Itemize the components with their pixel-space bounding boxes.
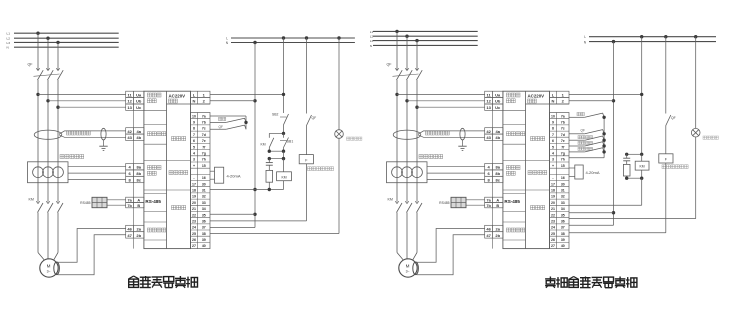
labels L N (left) [226, 36, 229, 45]
circuit breaker QF (right) [393, 66, 423, 80]
bus tap junctions and drops (left) [36, 32, 59, 67]
svg-text:RS-485: RS-485 [504, 199, 520, 204]
4-20mA load resistor (right) [569, 165, 583, 179]
svg-text:31: 31 [561, 189, 565, 193]
label phase current input (left) [147, 166, 161, 176]
terminal block RS-485 A/B (left) [126, 197, 144, 208]
shunt trip relay F (left) [299, 155, 313, 164]
motor thermistor sensor (right) [413, 262, 419, 275]
svg-text:27: 27 [551, 244, 555, 248]
svg-text:7e: 7e [202, 139, 206, 143]
svg-text:8: 8 [552, 127, 554, 131]
svg-text:26: 26 [551, 238, 555, 242]
label thermistor input (left) [147, 228, 165, 232]
wire switch common (left) [210, 116, 246, 129]
QF auxiliary contact (right) [666, 115, 671, 154]
svg-text:30: 30 [202, 182, 206, 186]
svg-text:4a: 4a [495, 129, 500, 134]
svg-text:25: 25 [551, 232, 555, 236]
svg-text:7a: 7a [561, 114, 565, 118]
svg-text:40: 40 [561, 244, 565, 248]
svg-text:5: 5 [552, 145, 554, 149]
label branch 4 (right) [578, 141, 593, 144]
svg-text:34: 34 [561, 207, 565, 211]
wire L tap to indicator lamp (right) [694, 35, 697, 128]
wire N drop (left) [210, 41, 257, 228]
label QF (right) [581, 128, 585, 132]
terminal block L/N mains (left) [191, 91, 211, 104]
svg-text:L3: L3 [7, 41, 11, 45]
svg-text:7e: 7e [561, 139, 565, 143]
svg-text:B: B [496, 204, 499, 208]
svg-text:42: 42 [486, 129, 491, 134]
svg-text:8: 8 [193, 127, 195, 131]
label QF aux (right) [671, 116, 676, 120]
svg-text:19: 19 [192, 195, 196, 199]
label leakage transformer (left) [67, 131, 91, 135]
svg-text:7b: 7b [486, 204, 491, 208]
wires RS485 box to terminals A/B (left) [107, 200, 126, 205]
svg-text:4: 4 [193, 151, 195, 155]
svg-text:AC220V: AC220V [528, 93, 545, 98]
label switch-inputs section (right) [531, 137, 545, 141]
svg-text:24: 24 [551, 226, 555, 230]
svg-text:6: 6 [193, 139, 195, 143]
bus labels L1 L2 L3 N (right) [370, 30, 374, 48]
svg-text:22: 22 [192, 213, 196, 217]
svg-text:QF: QF [219, 125, 223, 129]
svg-text:QF: QF [28, 63, 34, 67]
wire thermistor to terminal 46 (right) [416, 229, 485, 263]
svg-text:Uc: Uc [495, 105, 501, 110]
svg-text:SB1: SB1 [287, 140, 294, 144]
svg-text:RS485: RS485 [80, 201, 90, 205]
QF status branch (right) [569, 129, 606, 135]
label branch 3 (right) [578, 136, 593, 139]
svg-text:19: 19 [551, 195, 555, 199]
svg-text:Uc: Uc [136, 105, 142, 110]
test pushbutton branch (left) [210, 118, 248, 124]
label thermistor input (right) [506, 228, 524, 232]
label SB1 [287, 140, 294, 144]
svg-text:37: 37 [561, 226, 565, 230]
wire coil return to N and relay terminal (left) [210, 188, 284, 191]
svg-text:2a: 2a [136, 226, 141, 231]
terminal block leakage input 42/43 (left) [126, 128, 144, 141]
svg-text:3~: 3~ [406, 270, 410, 274]
svg-text:A: A [137, 199, 140, 203]
label shunt trip (right) [662, 165, 688, 169]
terminal block phase-voltage input 11/12/13 (left) [126, 91, 144, 110]
svg-text:21: 21 [192, 207, 196, 211]
protector unit U-right body [493, 91, 550, 248]
svg-text:7b: 7b [561, 121, 565, 125]
svg-text:20: 20 [551, 201, 555, 205]
svg-text:38: 38 [561, 232, 565, 236]
ground symbol (left) [99, 140, 107, 151]
svg-text:N: N [370, 44, 372, 48]
RS485 converter box (left) [92, 197, 107, 207]
svg-text:36: 36 [561, 220, 565, 224]
RC snubber capacitor (right) [623, 154, 630, 164]
svg-text:4b: 4b [136, 135, 141, 140]
shunt trip relay F (right) [659, 154, 673, 163]
svg-text:Ua: Ua [136, 92, 142, 97]
svg-text:46: 46 [127, 226, 132, 231]
svg-text:31: 31 [202, 189, 206, 193]
svg-text:AC220V: AC220V [169, 93, 186, 98]
svg-text:2a: 2a [495, 226, 500, 231]
indicator lamp HL (right) [691, 128, 700, 137]
svg-text:8c: 8c [136, 177, 141, 182]
phase conductors (right) [397, 80, 417, 200]
svg-text:8a: 8a [495, 165, 500, 170]
svg-text:L: L [226, 36, 228, 40]
svg-text:43: 43 [486, 135, 491, 140]
svg-text:35: 35 [202, 213, 206, 217]
label relay section (right) [531, 206, 545, 210]
label 4-20mA (right) [586, 170, 600, 175]
current transformer box with 3 CTs (left) [28, 162, 69, 183]
svg-text:33: 33 [561, 201, 565, 205]
svg-text:15: 15 [561, 164, 565, 168]
label shunt trip (left) [308, 167, 334, 171]
three-phase bus L1 L2 L3 N (right) [373, 31, 478, 45]
label test button (left) [219, 117, 226, 120]
label RS485 (left) [80, 201, 90, 205]
contactor coil KM (right) [635, 154, 649, 178]
svg-text:A: A [496, 199, 499, 203]
svg-text:3: 3 [193, 158, 195, 162]
control bus L/N (right) [589, 37, 716, 42]
leakage current transformer toroid (left) [34, 130, 62, 139]
svg-text:38: 38 [202, 232, 206, 236]
svg-text:7b: 7b [202, 121, 206, 125]
svg-text:8a: 8a [136, 165, 141, 170]
U-right section dividers [503, 104, 569, 240]
terminal strip switch/relay IO (left) [191, 113, 211, 249]
svg-text:6: 6 [552, 139, 554, 143]
label leakage input (right) [506, 132, 524, 136]
svg-text:13: 13 [486, 105, 491, 110]
current transformer box with 3 CTs (right) [387, 162, 428, 183]
AC220V input box (right) [528, 93, 545, 103]
ground symbol (right) [458, 140, 466, 151]
svg-text:7h: 7h [202, 158, 206, 162]
svg-text:4-20mA: 4-20mA [586, 170, 600, 175]
wire trip relay to strip terminal (right) [569, 163, 666, 233]
junction N to device N terminal (left) [210, 99, 257, 102]
node tie start-group bottom (left) [268, 150, 286, 159]
svg-text:KM: KM [388, 198, 393, 202]
svg-text:9: 9 [193, 121, 195, 125]
phase conductors (left) [38, 80, 58, 200]
label 4-20mA (left) [227, 174, 241, 179]
svg-text:8c: 8c [495, 177, 500, 182]
label phase voltage input (left) [147, 93, 161, 103]
svg-text:M: M [47, 264, 51, 269]
svg-text:13: 13 [127, 105, 132, 110]
wire L tap to QF auxiliary (right) [664, 35, 667, 114]
motor feeder conductors (left) [38, 213, 58, 261]
motor M (right) [399, 259, 417, 277]
wires phase voltage taps to terminals 11/12/13 (right) [395, 93, 484, 109]
svg-text:KM: KM [640, 165, 645, 169]
svg-text:RS-485: RS-485 [145, 199, 161, 204]
wire thermistor to terminal 46 (left) [57, 229, 126, 263]
wires CT secondaries to terminals 4/6/8 (left) [68, 167, 126, 180]
KM auxiliary holding contact (left) [269, 138, 274, 151]
svg-text:24: 24 [192, 226, 196, 230]
wire L tap to QF auxiliary (left) [305, 36, 308, 113]
wire switch common vertical (right) [603, 117, 605, 158]
svg-text:2b: 2b [495, 233, 500, 238]
label QF status (left) [219, 125, 223, 129]
label transducer output (left) [169, 171, 188, 175]
svg-text:4b: 4b [495, 135, 500, 140]
svg-text:23: 23 [551, 220, 555, 224]
label current transformers (right) [419, 155, 443, 159]
label RS-485 (right) [504, 199, 520, 204]
leakage current transformer toroid (right) [393, 130, 421, 139]
terminal block thermistor 46/47 (left) [126, 225, 144, 238]
terminal block leakage input 42/43 (right) [485, 128, 503, 141]
label current transformers (left) [60, 155, 84, 159]
title: protection-mode wiring [129, 276, 198, 288]
svg-text:7h: 7h [561, 158, 565, 162]
svg-text:16: 16 [561, 176, 565, 180]
label transducer output (right) [528, 171, 547, 175]
motor feeder conductors (right) [397, 213, 417, 261]
terminal block RS-485 A/B (right) [485, 197, 503, 208]
svg-text:3~: 3~ [47, 270, 51, 274]
node tie start-group top (left) [269, 132, 285, 138]
svg-text:10: 10 [551, 114, 555, 118]
svg-text:43: 43 [127, 135, 132, 140]
svg-text:4: 4 [552, 151, 554, 155]
svg-text:SB2: SB2 [272, 113, 279, 117]
motor M (left) [40, 259, 58, 277]
terminal block phase-current input 4/6/8 (left) [126, 164, 144, 183]
svg-text:17: 17 [192, 182, 196, 186]
RC snubber resistor (left) [266, 170, 273, 189]
bus tap junctions and drops (right) [395, 30, 418, 66]
svg-text:22: 22 [551, 213, 555, 217]
indicator lamp HL (left) [335, 130, 344, 139]
svg-text:23: 23 [192, 220, 196, 224]
terminal block phase-current input 4/6/8 (right) [485, 164, 503, 183]
svg-text:QF: QF [312, 116, 317, 120]
svg-text:KM: KM [29, 198, 34, 202]
svg-text:B: B [137, 204, 140, 208]
wire thermistor to terminal 47 (right) [417, 235, 485, 275]
svg-text:20: 20 [192, 201, 196, 205]
label RS485 (right) [439, 201, 449, 205]
terminal block phase-voltage input 11/12/13 (right) [485, 91, 503, 110]
label QF aux (left) [312, 116, 317, 120]
svg-text:7g: 7g [202, 151, 206, 155]
start pushbutton SB1 (left) [280, 138, 289, 152]
svg-text:RS485: RS485 [439, 201, 449, 205]
terminal block thermistor 46/47 (right) [485, 225, 503, 238]
circuit breaker QF (left) [34, 66, 64, 80]
svg-text:15: 15 [202, 164, 206, 168]
RS485 converter box (right) [451, 197, 466, 207]
svg-text:18: 18 [192, 189, 196, 193]
svg-text:12: 12 [486, 99, 491, 104]
wire lamp to strip terminal (left) [210, 138, 339, 233]
labels L N (right) [584, 35, 587, 44]
svg-text:12: 12 [127, 99, 132, 104]
svg-text:N: N [552, 99, 555, 104]
stop pushbutton SB2 (left) [280, 114, 289, 134]
svg-text:7: 7 [193, 133, 195, 137]
svg-text:7c: 7c [202, 127, 206, 131]
svg-text:QF: QF [581, 128, 585, 132]
svg-text:7b: 7b [127, 204, 132, 208]
4-20mA load resistor (left) [210, 167, 224, 183]
U-left section dividers [144, 104, 210, 240]
svg-text:21: 21 [551, 207, 555, 211]
wire switch common return (right) [569, 157, 604, 159]
svg-text:7c: 7c [561, 127, 565, 131]
label leakage transformer (right) [426, 131, 450, 135]
svg-text:M: M [406, 264, 410, 269]
label SB2 [272, 113, 279, 117]
svg-text:39: 39 [561, 238, 565, 242]
junction N to device N terminal (right) [569, 99, 615, 102]
svg-text:42: 42 [127, 129, 132, 134]
label relay section (left) [172, 206, 186, 210]
svg-text:26: 26 [192, 238, 196, 242]
QF status contact branch (left) [210, 125, 246, 129]
svg-text:9: 9 [552, 121, 554, 125]
label RS-485 (left) [145, 199, 161, 204]
three-phase bus L1 L2 L3 N (left) [14, 33, 119, 47]
control bus L/N (left) [231, 38, 355, 43]
svg-text:39: 39 [202, 238, 206, 242]
terminal strip switch/relay IO (right) [550, 113, 570, 249]
svg-text:47: 47 [127, 233, 132, 238]
switch branch 5 (right) [569, 148, 606, 154]
svg-text:KM: KM [281, 175, 286, 179]
contactor KM main contacts (right) [395, 200, 422, 213]
protector unit U-left body [134, 91, 191, 248]
junction N at relay common (left) [210, 213, 257, 216]
wires phase voltage taps to terminals 11/12/13 (left) [36, 93, 125, 109]
svg-text:QF: QF [671, 116, 676, 120]
svg-text:L: L [584, 35, 586, 39]
svg-text:37: 37 [202, 226, 206, 230]
wire N drop (right) [569, 40, 615, 225]
svg-text:7: 7 [552, 133, 554, 137]
svg-text:Ub: Ub [136, 99, 142, 104]
wire L terminal to contactor column (right) [569, 35, 643, 154]
node tie coil-group top (right) [625, 153, 643, 156]
wire L terminal to start/stop chain (left) [210, 36, 285, 113]
label lamp (right) [703, 136, 718, 139]
wires leakage CT secondary to terminals 42/43 (left) [59, 131, 126, 137]
label lamp (left) [347, 137, 362, 140]
svg-text:34: 34 [202, 207, 206, 211]
svg-text:L2: L2 [370, 35, 374, 39]
wire lamp to strip terminal (right) [569, 137, 696, 219]
svg-text:35: 35 [561, 213, 565, 217]
bus labels L1 L2 L3 N (left) [7, 32, 11, 50]
label KM (right) [388, 198, 393, 202]
label switch-inputs section (left) [172, 137, 186, 141]
svg-text:17: 17 [551, 182, 555, 186]
svg-text:+: + [552, 164, 554, 168]
svg-text:Ua: Ua [495, 92, 501, 97]
switch branch 4 (right) [569, 142, 606, 148]
svg-text:L1: L1 [7, 32, 11, 36]
label leakage input (left) [147, 132, 165, 136]
svg-text:5: 5 [193, 145, 195, 149]
svg-text:7d: 7d [561, 133, 565, 137]
svg-text:32: 32 [561, 195, 565, 199]
svg-text:7a: 7a [202, 114, 206, 118]
leakage CT shield lens (right) [460, 128, 465, 140]
svg-text:Ub: Ub [495, 99, 501, 104]
svg-text:L3: L3 [370, 39, 374, 43]
wire thermistor to terminal 47 (left) [58, 235, 126, 275]
label phase voltage input (right) [506, 93, 520, 103]
test pushbutton branch (right) [569, 113, 606, 119]
svg-text:27: 27 [192, 244, 196, 248]
wire L tap to indicator lamp (left) [337, 36, 340, 129]
svg-text:10: 10 [192, 114, 196, 118]
svg-text:L1: L1 [370, 30, 374, 34]
node tie coil-group bottom and return (right) [569, 177, 643, 206]
AC220V input box (left) [169, 93, 186, 103]
contactor coil KM (left) [277, 159, 292, 190]
svg-text:3: 3 [552, 158, 554, 162]
label QF [387, 63, 393, 67]
label KM (left) [29, 198, 34, 202]
title: direct-start-mode wiring [545, 277, 637, 288]
wire trip relay to strip terminal (left) [210, 164, 307, 221]
label QF [28, 63, 34, 67]
motor thermistor sensor (left) [54, 262, 60, 275]
svg-text:N: N [7, 46, 9, 50]
wires CT secondaries to terminals 4/6/8 (right) [427, 167, 485, 180]
QF auxiliary contact (left) [307, 115, 312, 155]
svg-text:7d: 7d [202, 133, 206, 137]
svg-text:16: 16 [202, 176, 206, 180]
svg-text:32: 32 [202, 195, 206, 199]
svg-text:N: N [193, 99, 196, 104]
svg-text:2b: 2b [136, 233, 141, 238]
junction N at relay common (right) [569, 211, 615, 214]
junction N at contactor return (left) [253, 188, 256, 191]
switch branch 3 (right) [569, 136, 606, 142]
svg-text:30: 30 [561, 182, 565, 186]
svg-text:4a: 4a [136, 129, 141, 134]
RC snubber capacitor (left) [266, 159, 273, 171]
wires leakage CT secondary to terminals 42/43 (right) [418, 131, 485, 137]
svg-text:7g: 7g [561, 151, 565, 155]
svg-text:KM: KM [261, 143, 266, 147]
svg-text:+: + [193, 164, 195, 168]
label test (right) [577, 112, 584, 115]
svg-text:25: 25 [192, 232, 196, 236]
svg-text:18: 18 [551, 189, 555, 193]
label KM aux [261, 143, 266, 147]
wires RS485 box to terminals A/B (right) [466, 200, 485, 205]
contactor KM main contacts (left) [36, 200, 63, 213]
label branch 5 (right) [578, 147, 593, 150]
